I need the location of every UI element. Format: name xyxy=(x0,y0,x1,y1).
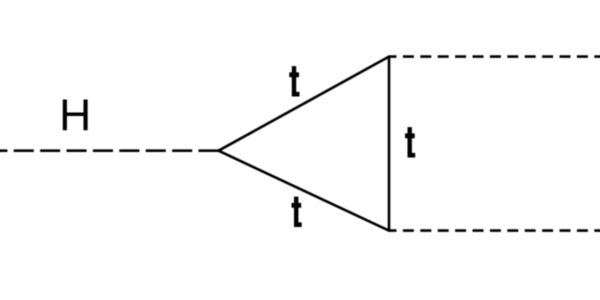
wire: incoming Higgs propagator (dashed) xyxy=(0,149,218,152)
wire: top quark line, vertical right edge of loop xyxy=(388,57,391,231)
label t: lower loop quark xyxy=(292,197,302,227)
label t: right loop quark xyxy=(405,127,415,157)
label t: upper loop quark xyxy=(289,66,299,96)
wire: top quark line, upper triangle edge xyxy=(219,57,390,151)
node: lower loop-boson vertex xyxy=(388,229,391,232)
wire: upper outgoing boson line (dashed) xyxy=(389,55,600,58)
svg-text:H: H xyxy=(59,91,91,140)
node: upper loop-boson vertex xyxy=(388,55,391,58)
node: Higgs-loop vertex xyxy=(217,149,220,152)
wire: top quark line, lower triangle edge xyxy=(219,151,390,231)
wire: lower outgoing boson line (dashed) xyxy=(389,229,600,232)
